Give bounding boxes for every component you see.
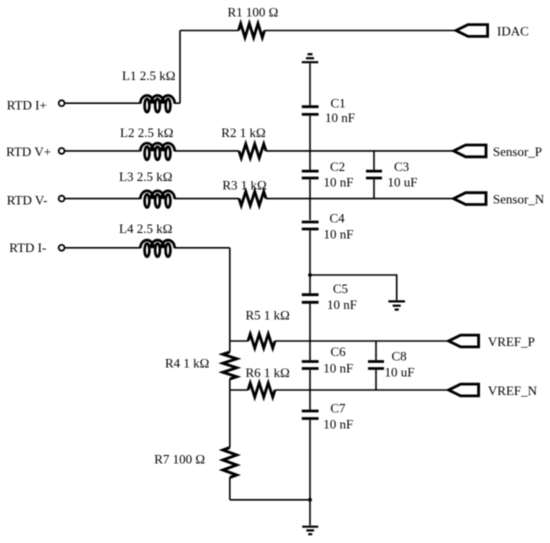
terminal RTD V- (59, 196, 65, 202)
wire L3 to R3 (175, 198, 239, 200)
connector Sensor_P (454, 145, 486, 157)
inductor L3 (140, 191, 174, 208)
connector IDAC (456, 25, 488, 37)
label VREF_N (488, 383, 538, 398)
resistor R3 (239, 192, 266, 206)
wire bus C4 to C5 junction (309, 230, 311, 293)
wire C8 branch upper (375, 341, 377, 360)
label C4 value (324, 227, 354, 242)
label L1 value (122, 68, 175, 83)
svg-text:C8: C8 (392, 348, 407, 363)
label VREF_P (488, 334, 535, 349)
wire R1 row left lead from node A to R1 (180, 30, 239, 32)
label C4 (330, 210, 346, 225)
svg-text:RTD V-: RTD V- (7, 193, 48, 208)
label C3 value (388, 175, 418, 190)
svg-text:L3 2.5 kΩ: L3 2.5 kΩ (119, 169, 172, 184)
svg-text:R5 1 kΩ: R5 1 kΩ (246, 307, 290, 322)
label C7 (330, 400, 346, 415)
label C2 value (324, 175, 354, 190)
label Sensor_N (493, 192, 545, 207)
svg-text:L2 2.5 kΩ: L2 2.5 kΩ (120, 125, 173, 140)
svg-text:10 nF: 10 nF (323, 360, 353, 375)
capacitor C7 (302, 411, 319, 419)
wire L2 to R2 (175, 150, 239, 152)
label R4 value (165, 355, 209, 370)
svg-text:Sensor_P: Sensor_P (493, 144, 542, 159)
resistor R4 vertical (223, 352, 237, 379)
svg-text:RTD I-: RTD I- (9, 240, 46, 255)
resistor R6 (248, 383, 275, 397)
inductor L2 (140, 143, 174, 160)
svg-text:VREF_P: VREF_P (488, 334, 535, 349)
svg-text:10 nF: 10 nF (323, 417, 353, 432)
svg-text:RTD V+: RTD V+ (6, 144, 51, 159)
label L4 value (119, 221, 172, 236)
connector VREF_P (449, 335, 479, 347)
wire bus C2 to C4 (crosses Sensor_N row) (309, 179, 311, 220)
svg-text:C2: C2 (330, 159, 345, 174)
wire left column R4 to R7 (crosses VREF_N row) (229, 379, 231, 448)
svg-text:C5: C5 (333, 281, 348, 296)
resistor R5 (248, 334, 275, 348)
capacitor C6 (302, 362, 319, 369)
label C5 (333, 281, 348, 296)
capacitor C8 (368, 362, 384, 369)
wire bus C6 to C7 (crosses VREF_N row) (309, 370, 311, 410)
label C8 (392, 348, 407, 363)
svg-text:C7: C7 (330, 400, 346, 415)
wire R5 to VREF_P connector (net VREF_P) (275, 340, 449, 342)
wire R2 to Sensor_P connector (net Sensor_P) (266, 150, 454, 152)
inductor L1 (140, 96, 174, 113)
label C3 (394, 159, 409, 174)
terminal RTD I- (59, 245, 65, 251)
label C1 value (325, 110, 355, 125)
capacitor C2 (302, 171, 319, 178)
label R2 value (221, 125, 265, 140)
label RTD I- (9, 240, 46, 255)
wire ground branch from junction (310, 275, 397, 300)
svg-text:IDAC: IDAC (497, 24, 529, 39)
label L3 value (119, 169, 172, 184)
wire bus C1 to C2 (crosses Sensor_P row) (309, 116, 311, 170)
connector Sensor_N (454, 193, 486, 205)
wire RTD V+ terminal to L2 (65, 150, 140, 152)
label C2 (330, 159, 345, 174)
wire left column R7 to bottom wire (229, 478, 231, 500)
svg-text:C1: C1 (331, 95, 346, 110)
svg-text:R7 100 Ω: R7 100 Ω (154, 452, 205, 467)
terminal RTD V+ (59, 148, 65, 154)
label L2 value (120, 125, 173, 140)
label C6 (331, 344, 347, 359)
capacitor C3 (366, 171, 382, 178)
label R6 value (246, 365, 290, 380)
label RTD V+ (6, 144, 51, 159)
label RTD V- (7, 193, 48, 208)
ground bottom (302, 527, 318, 535)
inductor L4 (140, 240, 174, 257)
wire RTD V- terminal to L3 (65, 198, 140, 200)
svg-text:C4: C4 (330, 210, 346, 225)
svg-text:10 nF: 10 nF (324, 175, 354, 190)
wire VREF_N row left lead to R6 (230, 389, 248, 391)
svg-text:R4 1 kΩ: R4 1 kΩ (165, 355, 209, 370)
wire C3 branch upper (373, 151, 375, 170)
label C7 value (323, 417, 353, 432)
wire bus C5 to C6 (crosses VREF_P row) (309, 304, 311, 360)
label Sensor_P (493, 144, 542, 159)
resistor R7 vertical (223, 448, 237, 478)
label R5 value (246, 307, 290, 322)
wire L4 output to left column (175, 247, 230, 249)
wire bus top segment ground to C1 (309, 63, 311, 105)
wire bottom row to bus (230, 499, 310, 501)
svg-text:RTD I+: RTD I+ (7, 98, 47, 113)
svg-text:C6: C6 (331, 344, 347, 359)
wire C3 branch lower (373, 179, 375, 198)
svg-text:10 uF: 10 uF (385, 365, 415, 380)
label C8 value (385, 365, 415, 380)
wire bus C7 to bottom junction (309, 420, 311, 500)
svg-text:R1 100 Ω: R1 100 Ω (228, 5, 279, 20)
junction dot at bus and ground branch (308, 273, 312, 277)
label C5 value (327, 297, 357, 312)
wire vertical from R1 row down to L1 output node A (179, 31, 181, 104)
svg-text:10 nF: 10 nF (325, 110, 355, 125)
resistor R2 (239, 144, 266, 158)
svg-text:VREF_N: VREF_N (488, 383, 538, 398)
svg-text:10 nF: 10 nF (327, 297, 357, 312)
resistor R1 (239, 24, 265, 38)
svg-text:C3: C3 (394, 159, 409, 174)
wire RTD I+ terminal to L1 (65, 102, 140, 104)
wire VREF_P row left lead to R5 (230, 340, 248, 342)
capacitor C1 (302, 107, 319, 115)
capacitor C5 (302, 295, 319, 303)
capacitor C4 (302, 222, 319, 229)
ground flipped at top of bus (302, 54, 318, 62)
svg-text:R6 1 kΩ: R6 1 kΩ (246, 365, 290, 380)
junction dot at bottom bus (308, 498, 312, 502)
wire R1 to IDAC connector (265, 30, 457, 32)
label IDAC (497, 24, 529, 39)
svg-text:R3 1 kΩ: R3 1 kΩ (222, 178, 266, 193)
label C1 (331, 95, 346, 110)
wire R3 to Sensor_N connector (net Sensor_N) (266, 198, 454, 200)
label R3 value (222, 178, 266, 193)
wire L1 output stub to node A (175, 102, 180, 104)
svg-text:R2 1 kΩ: R2 1 kΩ (221, 125, 265, 140)
wire C8 branch lower (375, 370, 377, 390)
wire RTD I- terminal to L4 (65, 247, 140, 249)
ground right of C5 (388, 301, 405, 309)
wire left column down from L4 to R4 (229, 248, 231, 352)
svg-text:Sensor_N: Sensor_N (493, 192, 545, 207)
label RTD I+ (7, 98, 47, 113)
wire bottom ground stem (309, 500, 311, 526)
label C6 value (323, 360, 353, 375)
connector VREF_N (449, 384, 479, 396)
svg-text:L4 2.5 kΩ: L4 2.5 kΩ (119, 221, 172, 236)
terminal RTD I+ (59, 100, 65, 106)
label R1 value (228, 5, 279, 20)
svg-text:10 uF: 10 uF (388, 175, 418, 190)
wire R6 to VREF_N connector (net VREF_N) (275, 389, 449, 391)
label R7 value (154, 452, 205, 467)
svg-text:L1 2.5 kΩ: L1 2.5 kΩ (122, 68, 175, 83)
svg-text:10 nF: 10 nF (324, 227, 354, 242)
